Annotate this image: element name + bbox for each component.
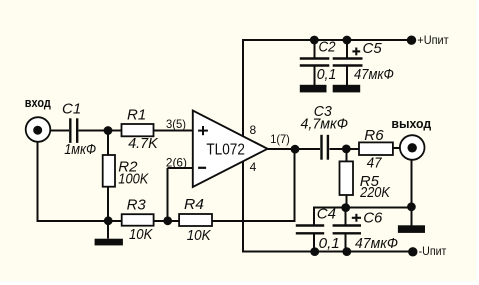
- svg-text:3(5): 3(5): [166, 117, 186, 131]
- svg-text:100K: 100K: [118, 170, 149, 187]
- svg-text:C6: C6: [363, 209, 383, 226]
- terminal +Uпит: [407, 36, 416, 45]
- plus sign of C6: [352, 214, 361, 222]
- resistor R1: [122, 124, 154, 136]
- wire input jack to C1: [38, 130, 69, 132]
- svg-text:10K: 10K: [129, 226, 153, 243]
- svg-text:47: 47: [367, 154, 382, 171]
- wire C2 bottom stub to ground: [313, 67, 315, 85]
- capacitor C3: [322, 135, 328, 160]
- svg-text:C2: C2: [319, 39, 337, 56]
- wire R3 to R4: [154, 220, 180, 222]
- ground below C2: [300, 85, 327, 93]
- svg-text:R1: R1: [127, 107, 146, 124]
- wire ground stub below output jack node: [410, 207, 412, 226]
- wire op-amp output to C3: [268, 148, 320, 150]
- svg-text:C4: C4: [317, 206, 336, 223]
- svg-text:2(6): 2(6): [166, 155, 187, 169]
- wire inverting input vertical to R3/R4 node: [167, 168, 169, 221]
- wire R5 bottom stub: [345, 195, 347, 208]
- capacitor C6: [333, 226, 361, 234]
- wire input jack down and right to R3: [38, 142, 122, 221]
- wire C3 to R6 through node: [329, 148, 359, 150]
- resistor R4: [179, 214, 212, 226]
- wire inverting input horizontal: [168, 167, 193, 169]
- node op-amp output: [291, 145, 300, 154]
- capacitor C1: [70, 118, 77, 143]
- op-amp U1 TL072: [193, 111, 268, 188]
- wire C6 bottom stub: [345, 234, 347, 251]
- svg-text:TL072: TL072: [206, 142, 245, 159]
- svg-text:0,1: 0,1: [319, 235, 340, 252]
- node C6 bottom: [342, 247, 351, 256]
- svg-text:R3: R3: [127, 197, 147, 214]
- wire ground stub below R3 node: [107, 221, 109, 239]
- svg-text:47мкФ: 47мкФ: [354, 66, 394, 83]
- node C1-R1-R2: [104, 126, 113, 135]
- svg-text:8: 8: [250, 123, 257, 137]
- svg-text:R6: R6: [364, 127, 384, 144]
- svg-text:0,1: 0,1: [317, 66, 337, 83]
- capacitor C5: [333, 59, 363, 66]
- svg-text:10K: 10K: [187, 227, 212, 244]
- wire C5 top stub: [346, 40, 348, 57]
- svg-text:вход: вход: [25, 95, 52, 110]
- node R3-R4 inverting: [163, 216, 172, 225]
- wire pin 8 to positive rail: [243, 40, 412, 136]
- wire output jack down to node: [410, 160, 412, 207]
- wire C2 top stub: [313, 40, 315, 57]
- svg-text:1(7): 1(7): [270, 132, 290, 146]
- connector output jack: [400, 135, 425, 160]
- node C5 top: [343, 36, 352, 45]
- ground below output jack node: [398, 225, 425, 233]
- svg-text:220K: 220K: [359, 184, 390, 201]
- node R3 left with ground: [104, 216, 113, 225]
- resistor R3: [122, 214, 154, 226]
- wire C4 bottom stub: [313, 234, 315, 251]
- svg-text:4: 4: [250, 160, 257, 174]
- capacitor C4: [296, 226, 324, 234]
- wire R2 bottom stub: [107, 187, 109, 221]
- wire C5 bottom stub to ground: [346, 67, 348, 85]
- ground below C5: [333, 85, 361, 93]
- svg-text:47мкФ: 47мкФ: [355, 235, 398, 252]
- wire feedback from R4 up to output node: [212, 149, 295, 221]
- wire R6 to output jack: [393, 147, 400, 149]
- svg-text:4.7K: 4.7K: [128, 135, 158, 152]
- wire C6 top stub: [345, 208, 347, 225]
- node output jack bottom: [407, 202, 416, 211]
- capacitor C2: [300, 59, 330, 66]
- wire C1 to R1 through node: [79, 130, 122, 132]
- svg-text:+Uпит: +Uпит: [417, 33, 449, 47]
- svg-text:-Uпит: -Uпит: [419, 244, 447, 258]
- node C2 top: [310, 36, 319, 45]
- resistor R6: [359, 142, 393, 155]
- svg-text:C5: C5: [363, 40, 383, 57]
- wire pin 4 down and right to negative rail: [243, 161, 413, 251]
- resistor R5: [340, 161, 354, 195]
- svg-text:выход: выход: [391, 116, 431, 131]
- wire R5 top stub: [345, 149, 347, 162]
- svg-text:4,7мкФ: 4,7мкФ: [301, 116, 349, 133]
- terminal -Uпит: [408, 247, 417, 256]
- wire R1 to op-amp noninverting input: [154, 130, 193, 132]
- svg-text:C1: C1: [62, 100, 81, 117]
- svg-text:R4: R4: [184, 196, 204, 213]
- plus sign of C5: [352, 48, 360, 56]
- wire R2 top stub: [107, 131, 109, 156]
- wire node line above C4 C6: [314, 208, 412, 225]
- svg-text:1мкФ: 1мкФ: [64, 141, 96, 158]
- node C4 bottom: [310, 247, 319, 256]
- ground below R3 node: [95, 239, 123, 246]
- node C3-R6-R5: [342, 145, 351, 154]
- node R5 bottom: [341, 203, 350, 212]
- connector input jack: [26, 117, 51, 142]
- resistor R2: [103, 155, 115, 187]
